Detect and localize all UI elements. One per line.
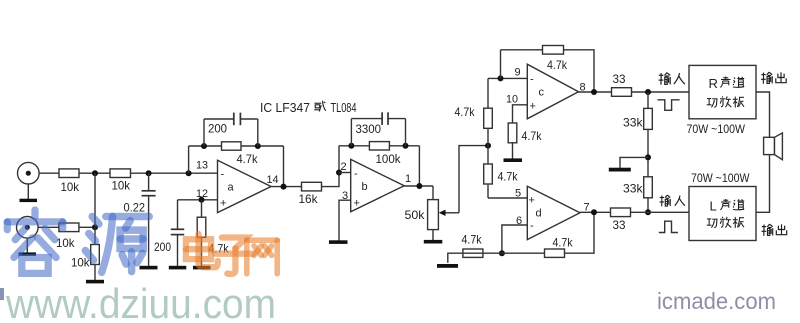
svg-text:10k: 10k [112, 179, 131, 193]
board text 功放板 (L) [707, 217, 744, 228]
svg-text:a: a [228, 182, 235, 194]
wire wiper riser [459, 146, 488, 213]
wire feedback line b [339, 145, 369, 147]
svg-text:4.7k: 4.7k [455, 105, 476, 119]
ground (J2) [19, 252, 37, 255]
node N16 [645, 89, 651, 95]
svg-text:5: 5 [515, 188, 521, 200]
node N4 [92, 224, 98, 230]
svg-text:TL084: TL084 [331, 101, 357, 115]
node N8 (a output) [281, 184, 287, 190]
L channel amp board box [689, 187, 756, 241]
wire J2 to R3 [38, 226, 59, 228]
ground (pin3) [329, 240, 348, 244]
wire 16k to pin2 riser [322, 146, 340, 187]
watermark 电子网 [186, 234, 277, 274]
input jack J1 (top RCA) [18, 162, 40, 184]
label 输入 (L) [660, 195, 686, 206]
svg-text:33k: 33k [623, 181, 643, 195]
wire R12 to R board [632, 91, 690, 93]
svg-text:-: - [530, 220, 534, 232]
resistor R9 4.7k (chain upper) [455, 78, 493, 145]
node N2 (0.22 cap tap) [146, 170, 152, 176]
wire R4 to ground [94, 265, 96, 281]
capacitor C4 3300 loop (b feedback cap) [351, 112, 405, 146]
wire feedback line a [189, 145, 222, 147]
wire J1 to R1 [39, 172, 59, 174]
wire d bottom line left [448, 253, 483, 263]
wire mid ground branch [620, 157, 648, 167]
edge artifact [0, 288, 4, 300]
svg-text:R: R [709, 76, 718, 91]
svg-text:0.22: 0.22 [124, 201, 146, 215]
svg-text:10: 10 [506, 94, 518, 106]
wire pot to ground [432, 230, 434, 240]
speaker SP [764, 133, 783, 160]
node N10 [348, 143, 354, 149]
svg-text:16k: 16k [299, 192, 319, 206]
wire pin5 [488, 197, 527, 199]
node N15 (c output) [591, 89, 597, 95]
svg-text:4.7k: 4.7k [553, 235, 574, 249]
node N13 (chain mid) [485, 143, 491, 149]
svg-text:4.7k: 4.7k [462, 232, 483, 246]
svg-text:2: 2 [341, 161, 347, 173]
wire feedback to b output [418, 146, 420, 186]
ground (C1) [140, 266, 158, 270]
resistor R11 4.7k (pin10 to ground) [508, 123, 542, 159]
wire pin6 [502, 225, 527, 253]
resistor R8 100k (b feedback) [369, 142, 400, 166]
svg-text:10k: 10k [61, 180, 80, 194]
wire pin10 [513, 105, 528, 123]
svg-text:-: - [354, 168, 358, 180]
svg-text:70W ~100W: 70W ~100W [687, 122, 746, 136]
svg-text:4.7k: 4.7k [237, 152, 259, 166]
node N19 [499, 250, 505, 256]
svg-text:50k: 50k [405, 208, 426, 222]
ground (C3) [169, 266, 187, 270]
svg-text:7: 7 [584, 201, 590, 213]
wire pin12 [178, 199, 218, 201]
ground (R4) [86, 280, 104, 284]
IC label huo 或 [314, 101, 326, 112]
svg-text:-: - [221, 169, 225, 181]
input jack J2 (bottom RCA) [17, 217, 39, 239]
svg-text:4.7k: 4.7k [498, 170, 519, 184]
wire R1 to node1 [79, 172, 110, 174]
watermark 容 [7, 210, 149, 273]
wire J1 to ground [27, 184, 29, 199]
potentiometer RP1 50k [405, 200, 460, 230]
svg-text:d: d [536, 208, 542, 220]
op-amp U1a triangle [218, 160, 272, 212]
op-amp U1b triangle [351, 159, 405, 211]
wire R2 to op-amp a pin13 [131, 172, 218, 174]
wire b output [404, 185, 433, 187]
svg-text:1: 1 [405, 173, 411, 185]
board text 功放板 (R) [707, 96, 744, 107]
wire R board output [756, 92, 770, 137]
capacitor C2 200 loop (a feedback cap) [204, 113, 258, 146]
label 输出 (L) [762, 224, 787, 236]
svg-text:33: 33 [613, 218, 626, 232]
wire pin3 [339, 200, 351, 240]
svg-text:9: 9 [515, 66, 521, 78]
node N18 [645, 209, 651, 215]
ground (J1) [20, 199, 38, 202]
wire feedback to output node [283, 146, 285, 187]
wire R16 to R17 [483, 252, 545, 254]
wire op-amp a output [271, 186, 302, 188]
svg-text:33k: 33k [623, 115, 643, 129]
svg-text:L: L [710, 199, 717, 214]
svg-text:33: 33 [613, 72, 626, 86]
svg-text:+: + [530, 101, 536, 113]
node N9 (pin2) [336, 170, 342, 176]
wire J2 to ground [26, 238, 28, 253]
resistor R13 33k (upper) [623, 92, 652, 177]
ground (mid) [609, 168, 631, 172]
svg-text:13: 13 [196, 160, 208, 172]
svg-text:100k: 100k [376, 154, 401, 166]
wire R3 to node N4 [79, 226, 95, 228]
capacitor C1 0.22 [124, 173, 156, 266]
svg-text:10k: 10k [56, 236, 75, 250]
wire c feedback right [564, 50, 595, 92]
resistor R3 10k [56, 223, 79, 250]
watermark 源 [85, 217, 149, 273]
svg-text:3300: 3300 [356, 124, 382, 136]
resistor R1 10k [59, 169, 80, 194]
node N1 [92, 170, 98, 176]
resistor R10 4.7k (c feedback) [543, 46, 568, 72]
resistor R12 33 [612, 72, 632, 96]
svg-text:+: + [354, 198, 360, 210]
node N12 (b output) [416, 183, 422, 189]
node N11 [403, 143, 409, 149]
resistor R15 4.7k (chain lower, to pin5) [484, 146, 519, 198]
board text L 声道 [710, 199, 745, 214]
wire speaker to L board output [756, 155, 770, 213]
svg-text:IC LF347: IC LF347 [260, 101, 310, 115]
op-amp U1d triangle [527, 186, 580, 239]
wire R8 to corner [389, 145, 419, 147]
svg-text:icmade.com: icmade.com [657, 288, 776, 314]
wire d feedback riser [565, 212, 595, 253]
svg-text:4.7k: 4.7k [547, 58, 568, 72]
capacitor C3 200 (pin12 to ground) [154, 200, 184, 266]
wire to pot [432, 186, 434, 200]
pulse icon (positive-going) [659, 221, 678, 232]
ground (R11) [504, 158, 523, 162]
node N7 [199, 197, 205, 203]
svg-text:200: 200 [208, 124, 227, 136]
resistor R6 4.7k (pin12 to ground) [197, 200, 229, 266]
svg-text:c: c [539, 87, 545, 99]
svg-text:14: 14 [267, 174, 279, 186]
ground (RP1) [424, 240, 443, 244]
node N17 (33k mid) [645, 154, 651, 160]
R channel amp board box [689, 65, 756, 118]
ground (R6) [193, 266, 211, 270]
svg-text:www.dziuu.com: www.dziuu.com [5, 280, 276, 323]
wire R5 to corner [241, 145, 284, 147]
wire pin2 [339, 172, 351, 174]
resistor R5 4.7k (a feedback) [222, 142, 259, 166]
svg-text:b: b [362, 181, 368, 193]
svg-text:4.7k: 4.7k [522, 129, 543, 143]
resistor R16 4.7k (d input) [462, 232, 483, 257]
svg-text:+: + [529, 195, 535, 207]
resistor R7 16k [299, 182, 322, 206]
resistor R2 10k [110, 169, 131, 193]
ground (d input) [437, 264, 458, 268]
label 输入 (R) [659, 73, 685, 85]
wire N1-N4 vertical [94, 173, 96, 244]
resistor R17 4.7k (d feedback) [545, 235, 574, 257]
wire c output [579, 91, 612, 93]
wire c feedback top [501, 49, 543, 51]
wire pin13 feedback riser [188, 146, 190, 173]
node N6 [255, 143, 261, 149]
wire R18 to L board [631, 211, 690, 213]
resistor R18 33 [611, 208, 631, 232]
node N3 (feedback tap) [186, 170, 192, 176]
pulse icon (negative-going) [658, 100, 680, 111]
svg-text:-: - [530, 74, 534, 86]
node N5 [201, 143, 207, 149]
svg-text:200: 200 [154, 240, 171, 254]
op-amp U1c triangle [527, 64, 578, 119]
wire d output [580, 211, 611, 213]
node N14 (pin9) [498, 75, 504, 81]
label 输出 (R) [761, 72, 786, 84]
svg-text:70W ~100W: 70W ~100W [691, 171, 750, 185]
resistor R14 33k (lower) [623, 177, 652, 213]
node N20 (d output) [591, 209, 597, 215]
wire c feedback left leg [500, 50, 502, 79]
svg-text:+: + [220, 198, 226, 210]
wire pin9 [488, 77, 527, 79]
board text R 声道 [709, 76, 745, 91]
resistor R4 10k (vertical) [71, 245, 99, 270]
